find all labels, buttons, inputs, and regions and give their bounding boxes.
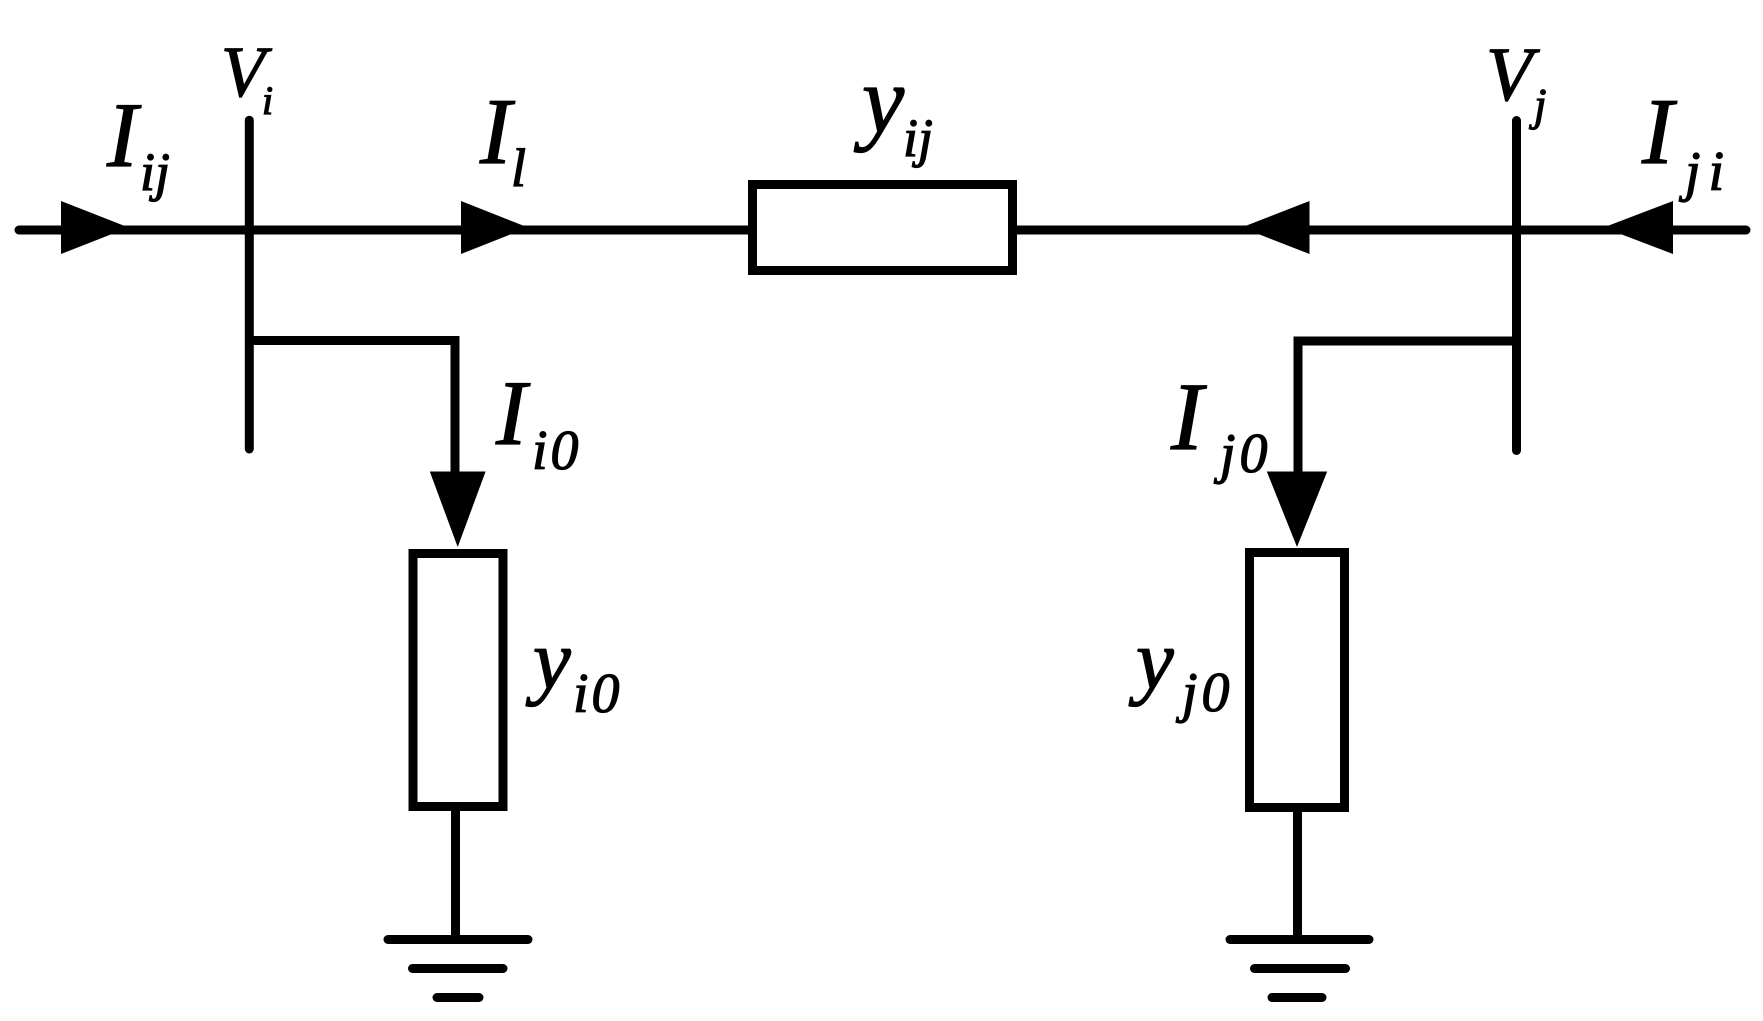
arrow I_ij (current into bus i from the left) — [61, 201, 129, 254]
wire: y_i0 to ground — [451, 806, 460, 941]
node bus j (vertical bar) — [1512, 121, 1521, 451]
svg-text:y: y — [525, 613, 571, 707]
resistor y_ij (series admittance box) — [753, 185, 1013, 271]
arrow I_ji (current into bus j from the right) — [1604, 201, 1674, 254]
resistor y_j0 (shunt admittance box, right) — [1250, 553, 1345, 808]
wire: main horizontal line from left terminal to right terminal — [19, 226, 1746, 235]
label y_i0 — [525, 613, 623, 725]
arrow I_j0 (current down into y_j0) — [1267, 472, 1327, 548]
svg-text:j0: j0 — [1176, 662, 1234, 724]
label y_j0 — [1128, 613, 1234, 724]
wire: shunt branch from bus i (horizontal then down) — [249, 341, 455, 479]
svg-text:y: y — [854, 47, 905, 153]
label V_j — [1486, 33, 1547, 130]
label I_ij — [106, 84, 170, 202]
svg-text:I: I — [106, 84, 142, 186]
svg-text:i: i — [262, 78, 273, 123]
label V_i — [221, 32, 273, 123]
arrow I_l (current from bus i toward y_ij) — [461, 201, 528, 254]
svg-text:j0: j0 — [1214, 423, 1272, 485]
svg-text:i0: i0 — [573, 663, 623, 725]
svg-text:ij: ij — [140, 142, 170, 202]
resistor y_i0 (shunt admittance box, left) — [413, 554, 503, 807]
svg-text:I: I — [1641, 80, 1677, 184]
svg-text:I: I — [1170, 363, 1207, 470]
label y_ij — [854, 47, 933, 168]
svg-text:V: V — [1486, 33, 1540, 117]
svg-text:y: y — [1128, 613, 1174, 707]
svg-text:ij: ij — [903, 108, 933, 168]
arrow on left of bus j (current from bus j toward y_ij) — [1242, 201, 1310, 254]
wire: y_j0 to ground — [1293, 807, 1302, 941]
svg-text:i0: i0 — [532, 420, 582, 482]
label I_ji — [1641, 80, 1732, 203]
label I_j0 — [1170, 363, 1272, 485]
svg-text:I: I — [479, 80, 515, 184]
node bus i (vertical bar) — [245, 120, 254, 449]
svg-text:ji: ji — [1679, 141, 1732, 203]
ground (right) — [1230, 940, 1369, 998]
label I_i0 — [495, 362, 582, 482]
svg-text:l: l — [511, 138, 526, 198]
arrow I_i0 (current down into y_i0) — [430, 472, 486, 548]
wire: shunt branch from bus j (horizontal then down) — [1298, 341, 1517, 478]
label I_l — [479, 80, 526, 198]
ground (left) — [388, 940, 528, 998]
svg-text:I: I — [495, 362, 531, 464]
